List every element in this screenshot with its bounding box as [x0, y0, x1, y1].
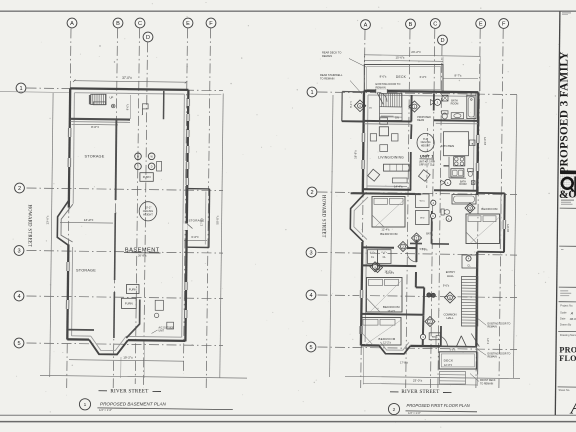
dining table — [379, 127, 388, 136]
drawing title 2 circle — [388, 403, 399, 414]
ceiling height oval unit1 — [417, 133, 434, 151]
svg-text:KITCHEN: KITCHEN — [441, 144, 455, 148]
basement east wall — [185, 90, 188, 341]
svg-text:BEDROOM: BEDROOM — [380, 232, 398, 236]
svg-text:6'-0″±: 6'-0″± — [370, 252, 376, 254]
site boundary left — [50, 93, 53, 377]
armchair right — [418, 170, 430, 182]
entry stairs — [462, 277, 478, 327]
svg-text:C: C — [138, 21, 142, 27]
window tag x-box — [442, 95, 448, 101]
mech box 2 — [167, 322, 174, 329]
kitchen appliance box — [469, 140, 475, 146]
basement south bay — [89, 340, 128, 355]
door tag rear entry — [354, 100, 366, 112]
sheet no divider — [558, 386, 576, 388]
svg-text:GRF 8 FT CLG: GRF 8 FT CLG — [419, 164, 435, 166]
svg-text:PROPOSED FIRST FLOOR PLAN: PROPOSED FIRST FLOOR PLAN — [407, 403, 470, 408]
rear entry door swing — [378, 92, 388, 102]
svg-text:UNIT 1: UNIT 1 — [420, 153, 434, 158]
mech box 1 — [155, 300, 163, 310]
svg-text:12'-2″±: 12'-2″± — [383, 341, 391, 344]
bottom sheet border line 2 — [0, 421, 576, 423]
grid bubble 3 — [14, 246, 24, 256]
dim 23ft top — [364, 55, 480, 57]
title block divider 3 — [559, 286, 576, 288]
svg-text:TO REMAIN: TO REMAIN — [320, 77, 334, 81]
furnace box 1 — [140, 173, 153, 182]
svg-text:5'-6″±: 5'-6″± — [420, 249, 427, 251]
svg-text:E: E — [186, 21, 190, 27]
hall wall below bedroom1 — [363, 246, 394, 248]
common hall east wall lower — [440, 326, 442, 346]
svg-text:FURN: FURN — [143, 175, 151, 179]
svg-text:12'-4″±: 12'-4″± — [381, 227, 390, 231]
kitchen counter edge — [448, 157, 450, 178]
svg-text:4: 4 — [17, 294, 20, 300]
bedroom1 bed — [372, 197, 405, 228]
bath south wall — [434, 119, 478, 122]
kitchen island counter — [444, 132, 469, 156]
dim 6ft storage — [184, 239, 207, 241]
svg-text:BEDROOM: BEDROOM — [379, 337, 396, 341]
svg-text:RIVER STREET: RIVER STREET — [110, 389, 148, 394]
first floor grid line E — [476, 29, 480, 388]
rear landing bump left wall — [341, 92, 343, 121]
interior wall vertical B middle — [114, 213, 117, 280]
door tag hall — [373, 263, 383, 273]
svg-text:HALL: HALL — [447, 274, 454, 278]
title block divider 2 — [559, 245, 576, 247]
svg-text:HALL: HALL — [447, 316, 454, 320]
utility box — [157, 162, 162, 172]
svg-text:F: F — [209, 21, 213, 27]
svg-text:6'-0″±: 6'-0″± — [191, 235, 199, 239]
svg-text:1: 1 — [414, 105, 416, 109]
common hall west wall — [422, 288, 425, 316]
wing door tag — [465, 203, 475, 213]
site line bottom right plan — [345, 376, 520, 378]
furnace box 3 — [122, 298, 137, 308]
basement grid line F — [206, 28, 210, 388]
bottom sheet border line 1 — [0, 414, 576, 416]
svg-text:STORAGE: STORAGE — [188, 219, 204, 223]
svg-text:2: 2 — [393, 407, 396, 413]
svg-text:4: 4 — [309, 293, 312, 299]
svg-text:2: 2 — [18, 186, 21, 192]
svg-text:1: 1 — [310, 90, 313, 96]
first floor west wall lower — [361, 242, 363, 345]
svg-text:23'-2″±: 23'-2″± — [411, 50, 421, 54]
svg-text:HEIGHT: HEIGHT — [143, 213, 153, 217]
stair hall south wall — [364, 120, 412, 123]
first floor grid line B — [406, 29, 410, 388]
svg-text:ROOM: ROOM — [451, 103, 459, 106]
mid bath walls — [430, 211, 432, 244]
svg-text:06.04: 06.04 — [570, 317, 576, 321]
basement grid line 3 — [27, 251, 224, 254]
rear deck outline — [364, 65, 443, 92]
windows on first floor west wall — [361, 133, 366, 142]
west bay window living bedroom — [350, 194, 364, 242]
ceiling height oval — [139, 202, 157, 221]
svg-text:REMAIN: REMAIN — [376, 86, 386, 90]
svg-text:DECK: DECK — [444, 359, 454, 363]
armchair left — [368, 169, 380, 181]
kitchen south wall — [434, 189, 477, 192]
grid bubble C — [135, 18, 145, 28]
svg-text:REMAIN: REMAIN — [488, 325, 498, 328]
svg-text:5'-1″±: 5'-1″± — [349, 101, 353, 108]
door tag stair side — [409, 101, 420, 112]
svg-text:9'-0″±: 9'-0″± — [127, 103, 130, 110]
kitchen bath divider wall — [444, 165, 450, 167]
svg-text:A: A — [364, 23, 368, 29]
dim extension ticks top — [73, 80, 76, 83]
first floor grid line 5 — [318, 347, 518, 350]
svg-text:1: 1 — [84, 402, 87, 408]
logo caption tiny text — [561, 200, 574, 201]
svg-text:6'-0″±: 6'-0″± — [420, 75, 427, 79]
dim 37ft top — [74, 81, 186, 83]
rear landing bump bottom wall — [342, 120, 364, 122]
svg-text:6: 6 — [449, 296, 451, 300]
title block divider 1 — [560, 207, 576, 209]
hall door swing 1 — [436, 335, 448, 346]
existing door opening top wall — [376, 89, 388, 93]
svg-text:3: 3 — [17, 249, 20, 255]
dim 15ft top — [364, 60, 443, 61]
door tag small bath — [445, 179, 451, 185]
first floor grid line 4 — [318, 295, 518, 298]
svg-text:8'-7″±: 8'-7″± — [454, 74, 462, 78]
site line top right segment — [188, 93, 221, 95]
drawing title 1 circle — [79, 399, 90, 410]
dim 8ft interior — [72, 123, 119, 126]
svg-text:FLOOR PLAN: FLOOR PLAN — [559, 354, 576, 363]
windows on first floor east walls — [476, 135, 481, 143]
site boundary left of plan — [330, 95, 333, 377]
tub upper bath — [467, 95, 476, 118]
basement south wall west run — [68, 338, 89, 341]
svg-text:PROPSOED 3 FAMILY: PROPSOED 3 FAMILY — [558, 51, 570, 173]
small bath toilet — [468, 169, 474, 172]
svg-text:PROPOSED BASEMENT PLAN: PROPOSED BASEMENT PLAN — [100, 402, 167, 407]
storage room south wall — [186, 246, 209, 248]
svg-text:4: 4 — [359, 104, 361, 108]
basement grid line 5 — [27, 343, 224, 346]
door tag bath — [434, 99, 440, 105]
svg-text:14'-4″±: 14'-4″± — [394, 185, 403, 189]
entry closet — [462, 255, 477, 268]
grid bubble B — [113, 18, 123, 28]
basement grid line E — [183, 28, 187, 374]
grid bubble F — [206, 18, 216, 28]
svg-text:Sheet No.: Sheet No. — [559, 388, 571, 392]
svg-text:2: 2 — [402, 245, 404, 249]
top sheet border — [0, 10, 576, 12]
windows on basement west wall — [67, 128, 72, 137]
sink vanity upper bath — [451, 113, 463, 119]
grid bubble E — [183, 18, 193, 28]
dim 23ft bottom — [364, 384, 478, 386]
toilet upper bath — [442, 111, 449, 114]
basement grid line 1 — [27, 88, 224, 91]
basement grid line D — [143, 42, 147, 388]
grid bubble E — [476, 19, 486, 29]
svg-text:BEAM: BEAM — [417, 119, 424, 122]
svg-text:1: 1 — [19, 86, 22, 92]
mid toilet — [441, 209, 444, 215]
svg-text:C: C — [433, 22, 437, 28]
wing bed — [466, 214, 500, 244]
hall jog wall — [416, 286, 424, 288]
grid bubble 4 — [306, 290, 316, 300]
svg-text:LIVING/DINING: LIVING/DINING — [378, 155, 404, 159]
stair hall wall — [163, 91, 165, 119]
svg-text:STORAGE: STORAGE — [85, 154, 105, 158]
info rows divider — [559, 301, 576, 303]
svg-text:14'-0″±: 14'-0″± — [384, 270, 393, 274]
svg-text:BATH: BATH — [460, 180, 466, 183]
basement west wall upper — [69, 88, 70, 207]
svg-text:A: A — [70, 21, 74, 27]
svg-text:1/4″ = 1'-0″: 1/4″ = 1'-0″ — [99, 408, 112, 412]
grid bubble B — [406, 19, 416, 29]
svg-text:FURN: FURN — [129, 287, 137, 291]
entry hall west wall upper — [415, 240, 417, 262]
svg-text:2: 2 — [429, 320, 431, 324]
bedroom1 south wall of living — [351, 192, 421, 195]
svg-text:15'-6″±: 15'-6″± — [396, 56, 405, 60]
wall fixture box — [142, 104, 148, 109]
living room east wall — [410, 125, 413, 140]
svg-text:1/4″ = 1'-0″: 1/4″ = 1'-0″ — [408, 411, 421, 415]
first floor south wall east run — [410, 345, 440, 348]
grid bubble 5 — [306, 342, 316, 352]
basement grid line A — [67, 28, 71, 388]
svg-text:UP: UP — [110, 96, 114, 100]
dim extension lines deck — [363, 56, 365, 65]
consultant stamp mark — [561, 249, 564, 250]
windows on basement east wall — [186, 99, 191, 106]
interior stub wall — [68, 329, 94, 331]
kitchen sink — [451, 169, 464, 177]
svg-text:F: F — [502, 22, 506, 28]
svg-text:BEDROOM: BEDROOM — [481, 207, 498, 211]
storage door opening — [183, 224, 188, 231]
svg-text:17'-8″±: 17'-8″± — [400, 361, 408, 364]
svg-text:19'-2″±: 19'-2″± — [123, 355, 133, 359]
site boundary right — [220, 94, 223, 378]
svg-text:HEIGHT: HEIGHT — [421, 145, 431, 148]
stove burners — [454, 157, 465, 166]
svg-text:1: 1 — [416, 236, 418, 240]
grid bubble 5 — [14, 338, 24, 348]
windows on wing east wall — [502, 220, 507, 229]
svg-text:10'-2″: 10'-2″ — [145, 205, 152, 209]
stray specks — [99, 45, 100, 46]
svg-text:D: D — [440, 38, 444, 44]
svg-text:HOWARD STREET: HOWARD STREET — [321, 195, 326, 238]
rear stairs — [380, 93, 403, 120]
basement grid line 4 — [27, 296, 224, 299]
east wing north wall — [477, 192, 505, 194]
grid bubble A — [67, 18, 77, 28]
basement grid line 2 — [27, 188, 224, 191]
svg-text:2: 2 — [310, 190, 313, 196]
grid bubble D — [143, 32, 153, 42]
grid bubble 1 — [307, 87, 317, 97]
basement west wall lower — [67, 245, 68, 340]
first floor grid line 1 — [318, 92, 518, 95]
svg-text:5: 5 — [309, 345, 312, 351]
dim 19ft bottom — [69, 360, 184, 362]
bedroom2 bed — [367, 278, 403, 313]
svg-text:23'-0″±: 23'-0″± — [413, 379, 423, 383]
svg-text:HOWARD STREET: HOWARD STREET — [27, 205, 32, 248]
grid bubble 1 — [16, 83, 26, 93]
svg-text:3: 3 — [309, 251, 312, 257]
svg-text:RIVER STREET: RIVER STREET — [401, 390, 439, 395]
first floor west wall upper — [363, 91, 364, 194]
door tag closet — [420, 334, 425, 339]
svg-text:D: D — [137, 166, 139, 169]
first floor grid line 3 — [318, 253, 518, 256]
svg-text:8'-0″±: 8'-0″± — [91, 125, 99, 129]
svg-text:8'-0″±: 8'-0″± — [380, 75, 387, 79]
scan speckle noise — [187, 66, 188, 67]
washer dryer circles — [135, 153, 142, 160]
closets hall — [368, 250, 378, 264]
door tag entry — [445, 292, 456, 303]
svg-text:5: 5 — [17, 341, 20, 347]
svg-text:ROOM: ROOM — [459, 184, 466, 186]
front deck outline — [439, 352, 476, 369]
svg-text:Date: Date — [560, 316, 566, 320]
storage room north wall — [187, 188, 210, 190]
svg-text:EXISTING DOOR TO: EXISTING DOOR TO — [376, 82, 401, 86]
svg-text:26'-8″±: 26'-8″± — [138, 254, 147, 258]
bath wall west — [433, 93, 435, 110]
front door swing — [457, 336, 462, 347]
svg-text:50'-0″±: 50'-0″± — [216, 215, 220, 224]
door tag common hall — [425, 317, 435, 327]
washer dryer closet — [416, 211, 430, 225]
svg-text:4'-0″±: 4'-0″± — [487, 337, 490, 344]
mid door tag — [431, 200, 436, 205]
interior wall vertical B lower — [113, 292, 116, 338]
hall door swing 2 — [407, 252, 417, 262]
interior wall vertical B upper — [115, 120, 118, 200]
svg-text:Drawn By: Drawn By — [560, 322, 572, 326]
svg-text:D: D — [151, 166, 153, 169]
svg-text:3: 3 — [469, 206, 471, 210]
svg-text:37'-0″±: 37'-0″± — [122, 76, 132, 80]
first floor grid line F — [499, 29, 503, 388]
svg-text:13'-0″±: 13'-0″± — [387, 310, 395, 313]
basement west bay window — [57, 200, 69, 245]
entry hall west wall lower — [415, 272, 417, 287]
first floor north wall — [364, 91, 478, 93]
bedroom3 bed — [361, 318, 401, 346]
svg-text:9'-6″±: 9'-6″± — [450, 350, 457, 352]
east wing east wall — [503, 193, 506, 252]
svg-text:Drawing Name: Drawing Name — [560, 333, 576, 337]
door tag entry closet — [466, 256, 471, 261]
south bay bedroom3 — [379, 346, 410, 354]
living room south wall — [363, 188, 411, 191]
site line bottom — [40, 375, 247, 378]
svg-text:Scale: Scale — [560, 311, 567, 315]
water heater circle — [154, 313, 158, 317]
grid bubble 4 — [14, 291, 24, 301]
small bath x-box — [471, 181, 475, 185]
grid bubble D — [438, 35, 448, 45]
first floor grid line D — [438, 45, 442, 388]
furnace box 2 — [127, 285, 140, 294]
architect logo box with grid — [559, 174, 576, 201]
svg-text:23'-4″±: 23'-4″± — [483, 136, 487, 145]
interior wall horizontal upper — [71, 118, 131, 121]
svg-text:BEDROOM: BEDROOM — [383, 305, 400, 309]
svg-text:W.I.C: W.I.C — [420, 201, 426, 203]
deck steps — [440, 372, 466, 385]
grid bubble F — [499, 19, 509, 29]
svg-text:DN: DN — [395, 116, 399, 120]
proposed beam dashed line — [426, 128, 429, 188]
svg-text:UNIT: UNIT — [159, 329, 165, 332]
site boundary right of plan — [513, 95, 516, 378]
svg-text:REMAIN: REMAIN — [322, 54, 332, 58]
bedroom1 door tags — [398, 242, 408, 252]
svg-text:BALC: BALC — [432, 336, 438, 339]
dining chairs — [370, 134, 376, 141]
basement grid line C — [135, 28, 139, 384]
basement north wall — [70, 88, 188, 90]
project name tiny lines — [560, 289, 568, 292]
title block left border — [555, 11, 560, 415]
title block top tiny text — [562, 12, 571, 13]
rear landing bump top line — [342, 91, 364, 93]
rear door leaf — [377, 93, 383, 105]
grid bubble 2 — [15, 183, 25, 193]
svg-text:16'-8″±: 16'-8″± — [506, 223, 510, 232]
basement south wall east run — [128, 339, 185, 342]
svg-text:13'-6″±: 13'-6″± — [46, 215, 50, 224]
door tag bedroom2 — [370, 262, 380, 272]
svg-text:W/D: W/D — [420, 218, 425, 220]
svg-text:18'-8″±: 18'-8″± — [354, 150, 358, 159]
double door circles — [427, 293, 431, 297]
svg-text:CEILING: CEILING — [143, 209, 153, 213]
svg-text:12'-0″±: 12'-0″± — [444, 363, 453, 367]
basement stairs — [91, 94, 106, 104]
grid bubble A — [361, 20, 371, 30]
svg-text:A: A — [570, 311, 574, 315]
svg-text:FURN: FURN — [125, 302, 133, 306]
grid bubble 2 — [307, 187, 317, 197]
svg-text:6'-0″±: 6'-0″± — [381, 252, 387, 254]
first floor south wall west run — [361, 344, 379, 347]
first floor grid line C — [431, 29, 435, 388]
bench table — [392, 178, 407, 183]
svg-text:TO REMAIN: TO REMAIN — [480, 382, 494, 385]
interior dim line vertical — [129, 95, 131, 119]
bay dim extension lines — [120, 357, 122, 378]
dim 8ft-7 right — [443, 77, 478, 80]
svg-text:13'-0″±: 13'-0″± — [84, 218, 94, 222]
